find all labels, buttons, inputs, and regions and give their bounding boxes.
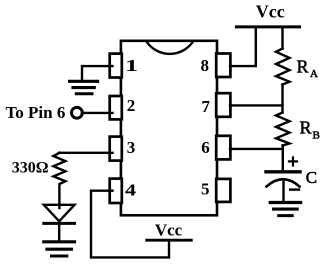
ground GND1 (pin 1)	[70, 81, 98, 93]
svg-text:5: 5	[201, 180, 210, 199]
svg-text:To Pin 6: To Pin 6	[6, 103, 66, 122]
power Vcc top bar	[236, 25, 299, 28]
wire pin7 to node	[230, 104, 283, 106]
pin 3 box	[110, 137, 122, 161]
capacitor C1 top plate	[266, 170, 300, 173]
capacitor C1 minus sign	[290, 188, 299, 190]
IC U1 body (8-pin DIP)	[121, 41, 217, 216]
svg-text:6: 6	[201, 138, 210, 157]
wire pin8 to top Vcc rail	[230, 28, 256, 66]
wire Vcc rail to RA	[281, 28, 283, 49]
pin 5 box	[216, 179, 230, 202]
svg-text:Vcc: Vcc	[155, 221, 183, 240]
pin 7 box	[216, 93, 230, 117]
svg-text:3: 3	[127, 138, 136, 157]
wire pin1 to ground	[82, 66, 113, 80]
resistor RB	[276, 113, 290, 146]
svg-text:C: C	[306, 168, 317, 187]
ground GND3 (capacitor)	[270, 203, 300, 216]
svg-text:1: 1	[125, 56, 138, 75]
pin 8 box	[216, 54, 230, 78]
pin 2 box	[110, 96, 122, 119]
pin 6 box	[216, 136, 230, 160]
wire RA to RB (node pin7)	[281, 85, 283, 113]
pin 4 box	[110, 179, 122, 203]
LED D1	[44, 205, 75, 241]
pin 4 number	[125, 181, 136, 200]
svg-text:Vcc: Vcc	[256, 2, 285, 22]
ground GND2 (LED)	[44, 242, 75, 256]
wire pin3 to resistor R1	[59, 152, 112, 154]
svg-text:7: 7	[202, 97, 211, 116]
pin 1 number	[125, 56, 138, 75]
wire pin4 to bottom Vcc	[91, 191, 169, 258]
capacitor C1 curved plate	[267, 179, 300, 186]
wire pin2 to terminal	[82, 112, 113, 114]
IC U1 notch	[147, 42, 194, 54]
pin 1 box	[110, 54, 122, 78]
terminal circle (To Pin 6)	[72, 107, 83, 118]
wire pin6 to node	[230, 148, 283, 150]
resistor RA	[276, 49, 290, 85]
wire RB to capacitor (node pin6)	[282, 146, 284, 171]
resistor R1 330 ohm	[53, 153, 65, 208]
svg-text:330Ω: 330Ω	[12, 160, 49, 177]
wire capacitor to ground	[282, 182, 284, 201]
svg-text:8: 8	[200, 56, 209, 75]
svg-text:4: 4	[125, 181, 136, 200]
svg-text:2: 2	[127, 96, 136, 115]
capacitor C1 plus sign	[289, 157, 297, 165]
power Vcc bottom bar	[147, 239, 192, 242]
